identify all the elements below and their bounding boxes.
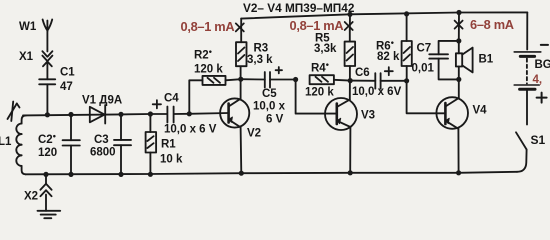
svg-text:C4: C4 xyxy=(164,93,179,105)
resistor R4 xyxy=(310,75,351,84)
svg-text:47: 47 xyxy=(60,81,73,93)
svg-text:0,8–1 mA: 0,8–1 mA xyxy=(181,19,235,34)
svg-text:10,0 x 6 V: 10,0 x 6 V xyxy=(164,124,217,136)
power rail top xyxy=(241,12,527,18)
svg-text:C1: C1 xyxy=(60,67,75,79)
antenna W1 xyxy=(43,20,53,52)
svg-text:C2•: C2• xyxy=(38,131,56,146)
battery BG xyxy=(514,52,541,125)
capacitor C2 xyxy=(63,114,80,174)
svg-text:0,01: 0,01 xyxy=(412,63,435,75)
svg-text:6800: 6800 xyxy=(90,147,116,159)
junction R1/bottom rail xyxy=(148,172,153,177)
svg-text:6–8 mA: 6–8 mA xyxy=(470,17,514,32)
junction V2 emitter/bottom rail xyxy=(239,171,244,176)
junction C2/input bus xyxy=(68,112,73,117)
svg-text:R2•: R2• xyxy=(194,47,212,62)
wire C4 right to V2 base xyxy=(174,113,229,114)
wire V2 collector xyxy=(240,67,242,99)
svg-text:R3: R3 xyxy=(254,43,269,55)
junction C3/input bus xyxy=(118,112,123,117)
capacitor C6 xyxy=(350,73,406,88)
junction rail/R5 xyxy=(347,12,352,17)
svg-text:R4•: R4• xyxy=(311,60,329,75)
svg-text:3,3 k: 3,3 k xyxy=(247,54,273,66)
ground xyxy=(38,211,61,218)
resistor R3 xyxy=(236,19,247,67)
connector X2 xyxy=(40,174,51,210)
junction C3/bottom rail xyxy=(118,172,123,177)
battery plus sign xyxy=(537,93,547,103)
capacitor C4 xyxy=(167,107,173,123)
junction rail/speaker branch xyxy=(456,10,461,15)
wire V4 base branch xyxy=(407,81,446,114)
junction X2/bottom rail xyxy=(43,172,48,177)
break mark x (6-8 mA) xyxy=(455,21,463,29)
resistor R6 xyxy=(402,14,412,81)
transistor V3 xyxy=(325,81,357,173)
junction C4/R2 branch xyxy=(187,111,192,116)
svg-text:10,0 x: 10,0 x xyxy=(253,101,286,113)
resistor R2 xyxy=(203,76,241,85)
svg-text:0,8–1 mA: 0,8–1 mA xyxy=(290,18,344,33)
battery minus sign xyxy=(541,44,548,46)
capacitor C7 xyxy=(429,41,459,80)
junction C5/R4/V3 base xyxy=(293,77,298,82)
wire rail to battery xyxy=(526,12,528,49)
svg-text:V2: V2 xyxy=(247,128,261,140)
wire R2 branch up from C4-V2 wire xyxy=(189,80,202,114)
speaker B1 xyxy=(456,41,473,80)
svg-text:V1 Д9А: V1 Д9А xyxy=(82,95,122,107)
svg-text:10,0 x 6V: 10,0 x 6V xyxy=(352,86,402,98)
svg-text:4,: 4, xyxy=(533,74,543,86)
resistor R1 xyxy=(146,114,157,174)
break mark x (0,8-1 mA) second xyxy=(345,22,353,30)
svg-text:6 V: 6 V xyxy=(266,114,284,126)
junction C6/R6/V4 base xyxy=(404,78,409,83)
junction rail/R6 xyxy=(404,11,409,16)
plus sign C4 xyxy=(153,100,161,108)
plus sign C5 xyxy=(276,67,282,73)
junction C2/bottom rail xyxy=(68,172,73,177)
svg-text:S1: S1 xyxy=(531,133,546,147)
svg-text:L1: L1 xyxy=(0,136,12,148)
junction C7/B1 bottom/V4 collector xyxy=(456,77,461,82)
svg-text:X1: X1 xyxy=(19,51,34,63)
diode V1 xyxy=(90,105,105,124)
junction C7/B1 top xyxy=(456,38,461,43)
svg-text:V2– V4 МП39–МП42: V2– V4 МП39–МП42 xyxy=(243,1,355,15)
svg-text:W1: W1 xyxy=(19,21,37,33)
junction V3 emitter/bottom rail xyxy=(348,170,353,175)
bottom rail xyxy=(26,172,517,175)
svg-text:120 k: 120 k xyxy=(305,87,334,99)
transistor V4 xyxy=(436,79,468,172)
capacitor C3 xyxy=(114,114,131,174)
svg-text:V3: V3 xyxy=(361,110,375,122)
svg-text:82 k: 82 k xyxy=(377,51,400,63)
junction V4 emitter/bottom rail xyxy=(456,170,461,175)
svg-text:120: 120 xyxy=(38,147,57,159)
svg-text:C3: C3 xyxy=(94,134,109,146)
svg-text:3,3k: 3,3k xyxy=(314,43,337,55)
break mark x (0,8-1 mA) xyxy=(236,23,244,31)
wire speaker branch from rail xyxy=(458,13,460,41)
junction R1/input bus xyxy=(148,111,153,116)
transistor V2 xyxy=(220,98,249,173)
connector X1 xyxy=(42,51,52,79)
svg-text:C5: C5 xyxy=(262,88,277,100)
svg-text:X2: X2 xyxy=(24,191,38,203)
svg-text:V4: V4 xyxy=(473,105,488,117)
capacitor C5 xyxy=(241,72,296,88)
variable-tuning arrow for L1 xyxy=(8,102,20,122)
wire V3 base branch xyxy=(296,80,337,114)
svg-text:10 k: 10 k xyxy=(160,154,183,166)
resistor R5 xyxy=(345,14,356,80)
junction V2 collector/R2/C5 xyxy=(238,77,243,82)
capacitor C1 xyxy=(39,79,55,114)
wire input top bus xyxy=(23,114,167,115)
svg-text:BG: BG xyxy=(535,59,550,71)
svg-text:B1: B1 xyxy=(479,54,494,66)
junction R4/R5/C6/V3 collector xyxy=(348,78,353,83)
plus sign C6 xyxy=(385,67,393,75)
svg-text:R1: R1 xyxy=(161,139,176,151)
inductor L1 xyxy=(16,115,26,174)
junction antenna/input bus xyxy=(45,112,50,117)
svg-text:C7: C7 xyxy=(417,43,432,55)
svg-text:120 k: 120 k xyxy=(194,64,223,76)
svg-text:C6: C6 xyxy=(355,67,370,79)
switch S1 xyxy=(516,132,527,172)
